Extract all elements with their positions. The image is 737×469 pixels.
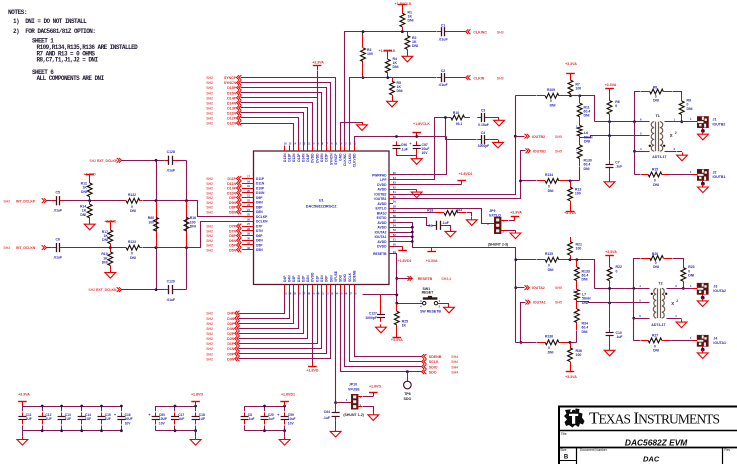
resistor R5 [390,78,403,99]
svg-text:T1: T1 [656,114,660,118]
svg-text:R136: R136 [545,335,553,339]
capacitor C16 [114,406,133,431]
switch SW1 [397,287,442,314]
svg-text:D12P: D12P [297,153,301,162]
wire SDO net [341,291,422,372]
svg-text:+1.8VCLK: +1.8VCLK [413,122,430,126]
capacitor C13 [58,406,71,431]
title block text [560,432,730,464]
wire D0N to U1 [239,291,331,359]
wire D4N to U1 [239,291,290,319]
node CLKINC port [466,29,504,34]
wire R20 to R23 [673,259,684,261]
svg-text:D7P: D7P [229,225,236,229]
node junction R21/R135 [569,258,572,261]
node D15N label [206,90,241,95]
wire D14N to U1 [241,103,313,146]
node junction R23 bottom [682,287,685,290]
svg-text:10V: 10V [125,422,132,426]
capacitor C128 [165,150,177,172]
capacitor C9 [428,221,449,230]
wire PWRPAD to rail [393,137,447,175]
power +1.8VD above R17 [104,220,116,226]
svg-text:SH4: SH4 [451,365,458,369]
svg-text:SH2: SH2 [206,332,213,336]
svg-text:IOUTB2: IOUTB2 [374,192,386,196]
wire INT_DCLKN row [47,247,52,249]
wire C96 C97 ground rail [397,155,417,157]
wire AVDD pin51 stub [393,241,413,243]
svg-text:100: 100 [367,52,373,56]
ground below J1 [698,127,709,139]
svg-text:SH5: SH5 [555,286,562,290]
svg-text:+3.3VA: +3.3VA [564,211,576,215]
svg-text:DNI: DNI [412,44,418,48]
node IOUTA2 port [514,285,562,290]
wire D1P to U1 [239,291,318,344]
U1 left pins 17-32 [242,175,268,253]
capacitor C17 [171,406,184,431]
svg-text:SH2: SH2 [206,177,213,181]
svg-text:SH2: SH2 [206,76,213,80]
ground below C127 [376,324,387,332]
svg-text:D15N: D15N [320,153,324,162]
svg-text:D5N: D5N [229,248,236,252]
svg-text:C6: C6 [56,238,60,242]
svg-text:CLKINC: CLKINC [343,153,347,166]
svg-text:Title: Title [561,432,567,436]
svg-text:CLKVDD: CLKVDD [353,153,357,167]
wire D2N to U1 [239,291,308,339]
svg-text:+1.8VD: +1.8VD [84,172,96,176]
svg-text:2) FOR DAC5681/81Z OPTION:: 2) FOR DAC5681/81Z OPTION: [13,28,95,35]
capacitor C5 [52,190,64,212]
wire D3N to U1 [239,291,299,329]
svg-text:.01uF: .01uF [166,169,175,173]
node junction R7/R109 [569,94,572,97]
svg-text:SH2: SH2 [206,187,213,191]
resistor R18 [427,208,466,215]
svg-text:SH3: SH3 [3,199,10,203]
svg-text:SH2: SH2 [206,234,213,238]
svg-text:SH2: SH2 [206,117,213,121]
svg-text:C13: C13 [65,413,71,417]
svg-text:.1uF: .1uF [401,148,408,152]
wire CLKIN net [350,78,437,146]
svg-text:+1.8VD1: +1.8VD1 [458,172,472,176]
wire VFUSE to JP10 [335,291,337,403]
resistor R1 [400,9,414,32]
svg-text:D12P: D12P [227,117,236,121]
capacitor C6 [52,238,64,260]
wire R122 to DCLKP pin [143,201,243,217]
connector J1 [698,117,726,128]
wire R135 row [516,259,537,261]
svg-text:SH2: SH2 [206,191,213,195]
wire R136 row [516,342,537,344]
svg-text:D2N: D2N [227,337,234,341]
svg-text:C59: C59 [288,413,294,417]
resistor R19 [101,248,112,270]
svg-text:R10: R10 [453,111,459,115]
svg-text:D11N: D11N [227,182,236,186]
svg-text:100: 100 [148,220,154,224]
wire INT_DCLKP row [47,200,52,202]
resistor R130 [576,138,592,171]
svg-text:.1uF: .1uF [323,416,330,420]
svg-text:Document Number: Document Number [580,448,608,452]
node D8P label [206,205,241,210]
svg-text:C96: C96 [401,143,407,147]
svg-text:SH4: SH4 [451,355,458,359]
svg-text:.01uF: .01uF [53,255,62,259]
wire R123 to DCLKN pin [143,222,243,248]
svg-text:.01uF: .01uF [166,298,175,302]
wire IOUTA1 pin stub [393,236,413,238]
svg-text:SH2: SH2 [206,107,213,111]
svg-text:0: 0 [615,104,617,108]
svg-text:DNI: DNI [130,256,136,260]
wire SYNCN to U1 [241,83,331,146]
svg-text:DNI: DNI [393,65,399,69]
op-amp U1 DAC5682 body [254,151,390,285]
resistor R13 [568,181,582,207]
svg-text:x: x [671,301,674,307]
svg-text:DNI: DNI [408,19,414,23]
wire D1N to U1 [239,291,322,349]
svg-text:D2N: D2N [306,275,310,282]
resistor R10 [445,111,470,126]
svg-text:D0N: D0N [329,275,333,282]
node D5P label [206,243,241,248]
svg-text:D9P: D9P [256,196,263,200]
svg-text:SH5: SH5 [555,301,562,305]
svg-text:DAC5682Z EVM: DAC5682Z EVM [625,438,688,448]
svg-text:SDO: SDO [429,370,437,374]
svg-text:EXTLO: EXTLO [376,207,387,211]
wire JP9 pin3 to ground [501,230,521,238]
node D12P label [206,116,241,121]
node junction TP8 tap [406,370,409,373]
svg-text:.1uF: .1uF [616,335,623,339]
svg-text:D14P: D14P [306,153,310,162]
wire SDIO net [345,291,422,367]
svg-text:0: 0 [548,346,550,350]
svg-text:D0P: D0P [325,275,329,282]
wire T2 secondary top to J3 [667,288,693,290]
resistor R12 [81,179,92,201]
svg-text:R8: R8 [653,86,657,90]
svg-text:D13P: D13P [227,107,236,111]
svg-text:SH2: SH2 [206,101,213,105]
node D4P label [206,311,239,316]
svg-text:100: 100 [576,353,582,357]
svg-text:D6P: D6P [256,234,263,238]
svg-text:C17: C17 [178,413,184,417]
wire IOUTB1 pin to B-bus2 [393,151,526,199]
capacitor C97 [409,141,429,155]
power +3.3VA at bank [18,393,30,407]
wire R15 row [635,174,641,176]
node D12N label [206,121,241,126]
svg-text:1000pF: 1000pF [478,144,490,148]
svg-text:SH2: SH2 [206,112,213,116]
svg-text:SH2: SH2 [206,248,213,252]
svg-text:DVDD: DVDD [311,153,315,163]
svg-text:.1uF: .1uF [268,417,275,421]
svg-text:10V: 10V [159,422,166,426]
svg-text:+3.3VA: +3.3VA [565,62,577,66]
svg-text:SH2: SH2 [206,182,213,186]
svg-text:AVDD: AVDD [377,188,387,192]
node INT_DCLKP port [3,198,46,203]
svg-text:DNI: DNI [582,278,588,282]
svg-text:DNI: DNI [548,189,554,193]
svg-text:DNI: DNI [688,273,694,277]
svg-text:C5: C5 [56,190,60,194]
svg-text:R15: R15 [652,167,658,171]
node junction VFUSE/C64 [334,401,337,404]
capacitor C64 [323,403,340,421]
svg-text:DNI: DNI [102,261,108,265]
svg-text:C11: C11 [26,413,32,417]
svg-text:EXT_DCLKP: EXT_DCLKP [97,159,118,163]
svg-text:DNI: DNI [584,167,590,171]
svg-text:1UF: 1UF [105,417,111,421]
svg-text:D4N: D4N [287,275,291,282]
svg-text:JP10: JP10 [349,383,357,387]
ground at U1 GND pin [341,122,368,146]
resistor R109 [537,88,567,108]
svg-text:TP8: TP8 [404,392,411,396]
svg-text:C127: C127 [369,311,377,315]
svg-text:LPF: LPF [380,178,386,182]
svg-text:+1.8VCLK: +1.8VCLK [395,2,412,6]
svg-text:SYNCP: SYNCP [334,153,338,165]
svg-text:DNI: DNI [550,104,556,108]
ground below R14 [84,221,95,229]
svg-text:DNI: DNI [653,349,659,353]
wire R8 loop left [635,92,641,122]
svg-text:DNI: DNI [653,183,659,187]
transformer T2 [639,282,678,327]
svg-text:1UF: 1UF [45,417,51,421]
svg-text:.01uF: .01uF [438,83,448,87]
resistor R123 [124,240,142,260]
power +1.8VCLK at R1 [395,2,412,8]
resistor R7 [568,78,581,96]
svg-text:SH2: SH2 [206,337,213,341]
wire IOUTA2 pin stub [393,232,413,234]
resistor R34 [573,302,588,334]
svg-text:D7N: D7N [256,229,263,233]
svg-text:.1uF: .1uF [248,417,255,421]
svg-text:SH3: SH3 [497,31,504,35]
ground right of C3 [489,118,504,126]
wire C6 to R123 [64,247,125,249]
wire JP10 pin3 to ground [358,407,379,421]
node SDIO port [422,364,459,369]
svg-text:D0N: D0N [227,357,234,361]
svg-text:D15P: D15P [325,153,329,162]
svg-text:D4P: D4P [227,312,234,316]
capacitor C3 [477,108,489,127]
svg-text:+3.3VA: +3.3VA [18,393,30,397]
wire R11 chain top [571,95,580,97]
power +1.8VD1 at bank [280,393,295,407]
resistor R134 [537,173,567,193]
svg-text:D9N: D9N [229,201,236,205]
node D15P label [206,85,241,90]
wire IOUTB2 pin to B-bus [393,96,516,195]
svg-text:C2: C2 [441,69,446,73]
svg-text:DNI: DNI [653,265,659,269]
svg-text:CLKIN: CLKIN [348,153,352,164]
svg-text:SH3,4: SH3,4 [441,277,451,281]
wire D15N to U1 [241,93,322,146]
wire C5 to R122 [64,200,125,202]
svg-text:D10N: D10N [256,191,265,195]
svg-text:ADT4-1T: ADT4-1T [652,155,667,159]
svg-text:+1.8VD: +1.8VD [306,368,318,372]
svg-text:IOUTA1: IOUTA1 [713,341,726,345]
capacitor C7 [606,160,623,172]
svg-text:C128: C128 [167,150,175,154]
svg-text:RESET: RESET [422,291,435,295]
svg-text:VFUSE: VFUSE [348,387,360,391]
ground below R5 [387,99,398,107]
wire VFUSE to JP10 pin1 [336,402,349,404]
svg-text:SDIO: SDIO [343,274,347,282]
resistor R21 [568,237,582,260]
power +3.3VA at pin49 rail [426,247,438,263]
svg-text:SH2: SH2 [206,86,213,90]
svg-text:SH2: SH2 [206,239,213,243]
svg-text:+3.3VA: +3.3VA [605,250,617,254]
node D13P label [206,106,241,111]
node junction R12/R14 [88,199,91,202]
svg-text:SH2: SH2 [206,210,213,214]
wire D12P to U1 [241,118,299,146]
svg-text:IOUTA2: IOUTA2 [532,286,545,290]
svg-text:2: 2 [675,131,677,135]
svg-text:D0P: D0P [227,352,234,356]
svg-text:SH2: SH2 [206,327,213,331]
test point TP8 [404,372,412,401]
ground at T1 pin2 [677,152,688,161]
svg-text:SH2: SH2 [89,159,96,163]
wire D0P to U1 [239,291,327,354]
svg-text:IOUTB2: IOUTB2 [713,122,726,126]
svg-text:+1.8VD: +1.8VD [191,393,203,397]
wire R22 down to C10 [609,288,611,328]
svg-text:D13P: D13P [287,153,291,162]
svg-text:D3N: D3N [227,327,234,331]
ground right of R18 [466,213,477,226]
power +3.3VA above R6 [605,83,617,93]
resistor R4 [385,55,398,78]
svg-text:SH2: SH2 [206,206,213,210]
svg-text:C15: C15 [105,413,111,417]
svg-text:D13N: D13N [283,153,287,162]
svg-text:1UF: 1UF [26,417,32,421]
node D6P label [206,233,241,238]
svg-text:DVDD: DVDD [311,272,315,282]
svg-text:+3.3VA: +3.3VA [391,338,403,342]
svg-text:0: 0 [550,99,552,103]
wire R134 row [521,180,537,182]
svg-text:DNI: DNI [582,330,588,334]
node junction R13/R134 [569,180,572,183]
node D2N label [206,336,239,341]
wire D14P to U1 [241,98,318,146]
node SDENB port [422,354,459,359]
svg-text:DNI: DNI [548,351,554,355]
svg-text:Size: Size [560,448,566,452]
svg-text:PWRPAD: PWRPAD [372,173,387,177]
svg-text:R123: R123 [128,240,136,244]
wire R34 bottom to R136 row [576,331,578,343]
svg-text:10UF: 10UF [125,417,133,421]
svg-text:D6N: D6N [256,239,263,243]
svg-text:U1: U1 [319,199,324,203]
svg-text:JP9: JP9 [489,209,495,213]
node junction R11 top [578,94,581,97]
node D11N label [206,181,241,186]
svg-text:D1P: D1P [315,275,319,282]
svg-text:C20: C20 [268,413,274,417]
svg-text:SH2: SH2 [206,196,213,200]
resistor R27 [641,333,669,352]
svg-text:DCLKN: DCLKN [256,220,268,224]
ground at bank [279,431,290,445]
svg-text:(SHUNT 1-2): (SHUNT 1-2) [343,413,363,417]
jumper JP10 [346,383,362,409]
wire AVDD pin62 stub [393,189,417,191]
svg-text:SH4: SH4 [451,360,458,364]
resistor R20 [641,252,672,269]
svg-text:IOUTA2: IOUTA2 [375,230,387,234]
svg-text:SCLK: SCLK [348,272,352,282]
connector J3 [697,283,726,294]
capacitor C96 [393,141,408,153]
connector J4 [697,335,726,346]
svg-text:93.1: 93.1 [456,122,463,126]
node D13N label [206,111,241,116]
node RESETB port [395,276,451,281]
wire R20 loop left [634,259,641,289]
U1 bottom pins 33-48 [283,270,357,296]
wire T2 secondary bottom to ground [667,318,677,320]
svg-text:1UF: 1UF [85,417,91,421]
svg-text:D1P: D1P [227,342,234,346]
wire DVDD pin63 to +1.8VD1 [393,184,462,186]
ground below C10 [604,340,615,356]
svg-text:RESETB: RESETB [418,277,433,281]
svg-text:x: x [670,133,673,139]
wire EXT_DCLKN row [122,289,165,291]
svg-text:D12N: D12N [227,122,236,126]
svg-text:SH2: SH2 [206,201,213,205]
wire +1.8VD bank bottom rail [156,430,196,432]
svg-text:SYNCN: SYNCN [329,153,333,165]
svg-text:IOUTA2: IOUTA2 [713,289,726,293]
svg-text:AVDD: AVDD [377,240,387,244]
svg-text:CLKIN: CLKIN [473,77,484,81]
power +3.3VA below R36 [565,367,577,379]
svg-text:+1.8VD: +1.8VD [104,220,116,224]
svg-text:0: 0 [616,269,618,273]
